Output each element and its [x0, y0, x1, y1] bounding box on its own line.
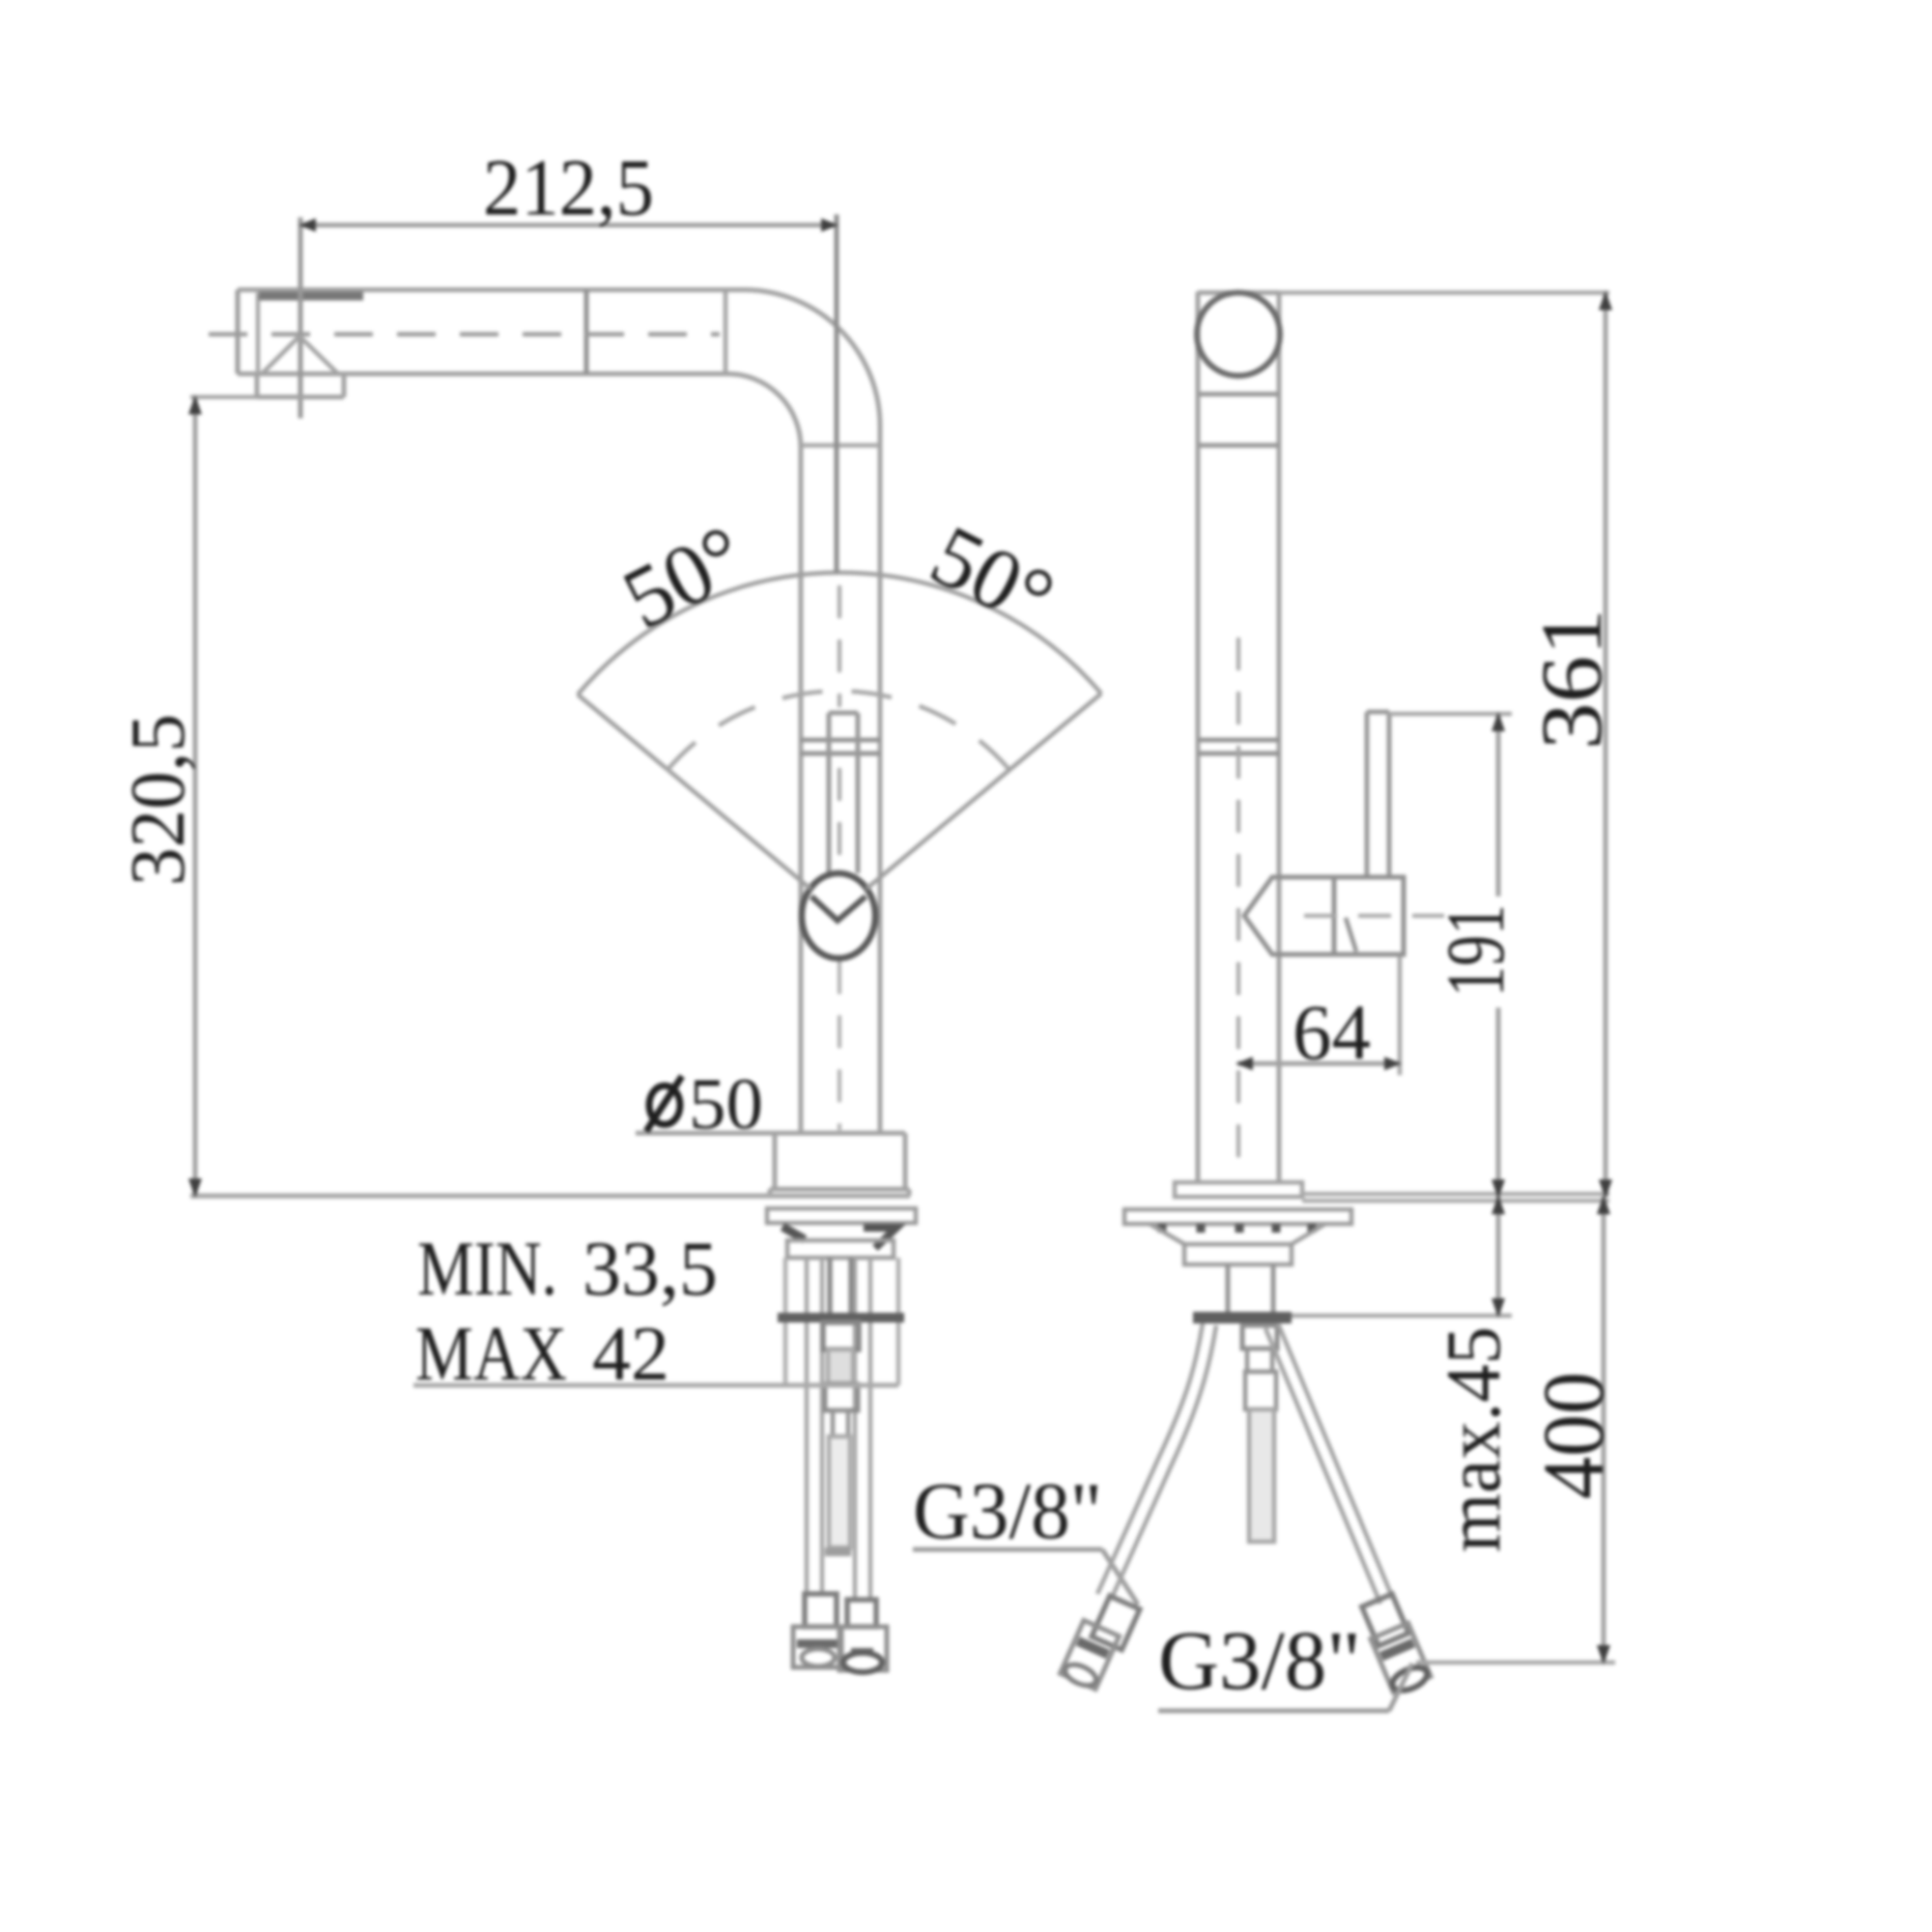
swivel joint lines left view — [801, 740, 880, 753]
dim max45 arrows — [1492, 1195, 1505, 1318]
dim 361 arrows — [1599, 291, 1612, 1199]
vertical tube right edge — [878, 426, 883, 1133]
fan right line — [867, 694, 1101, 889]
base cylinder — [770, 1133, 909, 1196]
horseshoe washer dark — [1193, 1312, 1292, 1323]
dark clamp mark left — [782, 1227, 805, 1239]
dim 191 text — [1447, 896, 1517, 1008]
svg-text:33,5: 33,5 — [582, 1227, 718, 1312]
right hose line 1 — [1265, 1328, 1380, 1604]
handle body pentagon — [1244, 877, 1404, 954]
collar above deck — [1175, 1182, 1302, 1197]
dark clamp mark right — [864, 1228, 896, 1248]
phi50 label — [646, 1076, 682, 1131]
stud segment 1 — [1242, 1325, 1277, 1349]
right hose connector nut — [1362, 1594, 1408, 1646]
spout horizontal tube bottom edge — [238, 372, 727, 377]
right tube top cap — [1198, 291, 1279, 296]
dim 212,5 line — [300, 223, 837, 228]
dim 320,5 arrows — [188, 395, 202, 1198]
washer under deck left — [767, 1208, 916, 1223]
fan left line — [578, 695, 810, 889]
dim 400 line — [1602, 1197, 1606, 1662]
right swivel joint lines — [1198, 740, 1279, 753]
dim max45 extension — [1292, 1314, 1512, 1319]
handle pivot V mark — [811, 896, 866, 921]
G3/8 label 2 leader — [1389, 1663, 1412, 1711]
left hose line 1 — [1097, 1323, 1203, 1594]
stud segment 3 — [1245, 1372, 1276, 1409]
spout centerline dashed — [209, 332, 720, 337]
deck line left — [190, 1193, 910, 1199]
handle body inner diagonal — [1346, 918, 1356, 952]
svg-text:MIN.: MIN. — [417, 1227, 557, 1312]
dim 400 extension bottom — [1416, 1661, 1615, 1665]
stack box 4 — [833, 1410, 848, 1436]
MAX line — [413, 1383, 898, 1388]
stack box 3 — [825, 1384, 858, 1410]
connector A body — [793, 1627, 841, 1667]
G3/8 label 2 underline — [1158, 1709, 1389, 1714]
stud cap — [825, 1548, 851, 1556]
vertical tube left edge — [799, 447, 804, 1133]
handle lever left view — [829, 713, 858, 873]
mounting nut dark bar — [778, 1313, 904, 1322]
elbow joint line — [801, 443, 880, 448]
connector A dark band — [797, 1639, 839, 1648]
right tube joint lines upper — [1198, 394, 1279, 445]
spout outlet circle — [1197, 293, 1280, 376]
dim max45 line — [1496, 1197, 1501, 1316]
bracket trapezoid sides — [1150, 1224, 1325, 1245]
right hose line 2 — [1278, 1323, 1393, 1599]
svg-text:50: 50 — [689, 1065, 763, 1145]
dim 400 arrows — [1597, 1195, 1610, 1664]
spout dark top bar — [259, 292, 363, 300]
right lever — [1367, 712, 1389, 877]
stack box 1 — [823, 1322, 859, 1350]
svg-text:191: 191 — [1429, 904, 1521, 997]
dim 212,5 arrows — [298, 218, 838, 232]
svg-text:400: 400 — [1526, 1372, 1622, 1499]
tube centerline dashed base — [838, 961, 841, 1130]
hose B lines — [855, 1258, 870, 1600]
handle body nose line — [1332, 877, 1337, 954]
elbow outer arc — [746, 290, 880, 426]
washer under deck right — [1124, 1209, 1351, 1224]
phi50 underline / base top — [636, 1131, 905, 1136]
svg-text:361: 361 — [1524, 609, 1620, 750]
fan outer arc — [578, 573, 1101, 695]
dim 191 extension top — [1389, 712, 1512, 717]
tube centerline dashed lower — [838, 768, 841, 867]
dim 64 arrows — [1236, 1057, 1402, 1070]
stud segment 4 — [1249, 1409, 1274, 1542]
aerator vertical centerline — [298, 217, 303, 418]
spray head box — [257, 374, 344, 397]
connector B dark band — [851, 1648, 873, 1656]
G3/8 label 1 leader — [1102, 1549, 1138, 1605]
right tube centerline dashed — [1236, 638, 1240, 1179]
dim 320,5 line — [193, 397, 198, 1196]
dim 64 line — [1237, 1062, 1400, 1066]
stud segment 2 — [1247, 1349, 1272, 1372]
dim 191 line — [1496, 714, 1501, 1197]
connector B body — [839, 1627, 887, 1670]
svg-text:320,5: 320,5 — [116, 714, 201, 886]
spout horizontal tube top edge — [238, 288, 746, 293]
connector B nut — [847, 1600, 876, 1627]
dim 361 line — [1604, 293, 1608, 1197]
elbow inner arc — [727, 374, 801, 447]
bracket rect right — [1184, 1244, 1292, 1264]
threaded rod — [1228, 1264, 1273, 1312]
G3/8 label 1 underline — [913, 1548, 1102, 1552]
dim 361 extension top — [1279, 291, 1609, 296]
right tube left edge — [1196, 292, 1201, 1182]
spout end cap inner edge — [256, 293, 261, 373]
dim 320,5 extension top — [190, 395, 257, 400]
washer screw ticks — [1162, 1224, 1312, 1233]
svg-text:G3/8": G3/8" — [1158, 1613, 1361, 1707]
connector A nut — [805, 1594, 837, 1627]
right tube right edge — [1277, 292, 1282, 1182]
aerator cone V — [262, 336, 338, 374]
svg-text:max.45: max.45 — [1432, 1326, 1517, 1552]
spout end cap left edge — [236, 290, 241, 374]
handle pivot circle — [802, 873, 875, 958]
handle centerline dashed — [1304, 914, 1444, 918]
spout junction line 1 — [584, 290, 589, 374]
shank outer lines — [785, 1258, 898, 1385]
left hose line 2 — [1111, 1325, 1216, 1600]
connector B end ring — [843, 1653, 882, 1672]
stack box 2 — [828, 1350, 853, 1383]
svg-text:64: 64 — [1293, 988, 1371, 1076]
svg-text:G3/8": G3/8" — [913, 1466, 1102, 1556]
fan dashed arc — [667, 691, 1010, 771]
hose A lines — [807, 1258, 822, 1594]
stud lines dark — [830, 1258, 851, 1314]
dim 64 extension right — [1398, 956, 1403, 1075]
clamp bracket left view — [787, 1240, 894, 1258]
deck line right — [1302, 1194, 1609, 1201]
left hose connector nut — [1092, 1596, 1140, 1650]
right hose end fitting — [1371, 1623, 1433, 1695]
tube centerline dashed upper — [838, 585, 841, 707]
left hose end fitting — [1060, 1620, 1120, 1690]
stud lower — [829, 1436, 850, 1548]
dim 191 arrows — [1492, 712, 1505, 1199]
svg-text:212,5: 212,5 — [483, 143, 654, 233]
spout junction line 2 — [724, 292, 728, 373]
dim 212,5 extension right — [835, 214, 839, 573]
connector A end ellipse — [802, 1649, 835, 1666]
